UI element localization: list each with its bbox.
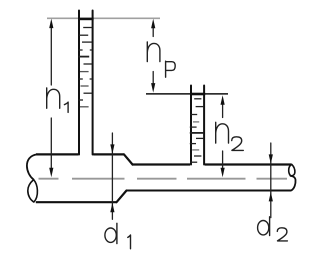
label h1 [47, 88, 68, 112]
label d1 [105, 223, 131, 249]
dimension h1 arrow down [49, 168, 53, 178]
dimension h2 arrow down [221, 168, 225, 178]
dimension h2 line [222, 105, 224, 169]
left pipe-break lens [28, 180, 38, 202]
right pipe-break S-curve [291, 176, 296, 191]
dimension d1 arrow down (to pipe top) [110, 144, 114, 154]
dimension hp arrow up [151, 19, 155, 29]
pipe bottom wall (large section) [36, 201, 117, 203]
label h2 [216, 122, 244, 150]
pipe top wall (small section) [132, 163, 292, 165]
dimension hp line [152, 28, 154, 85]
tube 2 liquid surface [190, 93, 205, 96]
reducer top slope [124, 154, 133, 164]
right pipe-break lens [289, 164, 295, 175]
tube 2 graduations [190, 99, 204, 162]
dimension h1 line [50, 27, 52, 169]
tube 1 liquid surface [78, 18, 94, 21]
piezometer tube 2 left wall [190, 86, 192, 165]
tube 1 graduations [79, 28, 93, 107]
dimension d1 arrow up (to pipe bottom) [110, 203, 114, 213]
dimension h1 arrow up [49, 19, 53, 29]
pipe bottom wall (small section) [126, 190, 291, 192]
top reference level line (gray) [47, 17, 160, 19]
dimension d2 arrow down (to pipe top) [269, 154, 273, 164]
piezometer tube 2 right wall [203, 86, 205, 165]
piezometer tube 1 right wall [92, 11, 94, 155]
dimension d2 line [270, 143, 272, 218]
label d2 [258, 217, 288, 241]
dimension d1 line [111, 133, 113, 219]
pipe top wall (large section) [36, 153, 124, 155]
piezometer tube 1 left wall [78, 11, 80, 155]
dimension hp arrow down [151, 83, 155, 93]
tube 2 level extension line [146, 93, 228, 95]
left pipe-break S-curve [27, 154, 37, 179]
reducer bottom slope [117, 191, 127, 203]
dimension d2 arrow up (to pipe bottom) [269, 192, 273, 202]
label hp [147, 42, 175, 77]
dimension h2 arrow up [221, 95, 225, 105]
pipe centerline (gray dashed) [39, 178, 288, 180]
